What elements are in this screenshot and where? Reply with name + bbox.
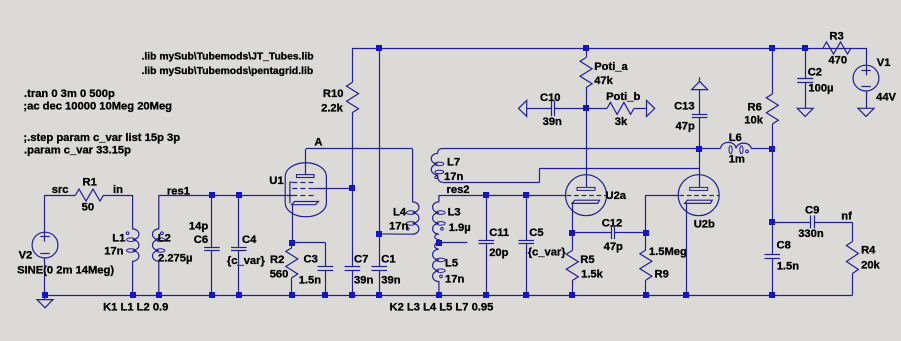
resistor R4 <box>852 222 854 241</box>
svg-text:R10: R10 <box>323 88 344 100</box>
wire cathode to C3 <box>292 242 326 244</box>
ground below V1 <box>858 108 874 116</box>
svg-text:C8: C8 <box>777 240 791 252</box>
svg-text:L5: L5 <box>445 258 458 270</box>
svg-text:47p: 47p <box>676 120 695 132</box>
junction L2-gnd <box>156 292 162 298</box>
svg-text:C2: C2 <box>808 67 822 79</box>
junction poti wiper <box>583 105 589 111</box>
U2b plate lead <box>699 149 701 188</box>
wire nfb drop <box>772 149 774 223</box>
junction C4-res1 <box>236 192 242 198</box>
junction R9-gnd <box>643 292 649 298</box>
inductor L6 <box>721 142 752 148</box>
wire ground rail bottom <box>45 295 852 297</box>
resistor Poti_a <box>586 48 588 58</box>
capacitor C7 <box>352 188 354 266</box>
capacitor C4 <box>238 195 240 247</box>
capacitor C11 <box>486 195 488 240</box>
svg-text:2.275µ: 2.275µ <box>158 253 192 265</box>
svg-text:1m: 1m <box>729 154 745 166</box>
svg-text:C7: C7 <box>354 254 368 266</box>
svg-text:R1: R1 <box>83 177 97 189</box>
tube U2b envelope <box>678 175 719 216</box>
svg-text:39n: 39n <box>543 116 562 128</box>
U1 grid g1 dashes <box>292 195 297 197</box>
junction C7-gnd <box>349 292 355 298</box>
capacitor C5 <box>526 195 528 240</box>
svg-text:470: 470 <box>828 55 847 67</box>
resistor R1 <box>76 189 104 201</box>
svg-text:20k: 20k <box>861 259 880 271</box>
junction C8-C9 <box>769 219 775 225</box>
U2a cathode lead <box>572 203 574 232</box>
resistor R9 <box>640 250 652 280</box>
svg-text:17n: 17n <box>444 171 463 183</box>
wire src <box>45 195 76 197</box>
svg-text:C12: C12 <box>602 218 623 230</box>
svg-text:1.5k: 1.5k <box>581 269 604 281</box>
junction g2 screen <box>349 185 355 191</box>
svg-text:A: A <box>314 137 322 149</box>
wire res1 <box>159 195 292 197</box>
svg-text:Poti_a: Poti_a <box>594 61 628 73</box>
svg-text:C6: C6 <box>194 234 208 246</box>
svg-text:C1: C1 <box>381 254 395 266</box>
capacitor C8 <box>772 222 774 255</box>
U1 g2 lead <box>314 188 353 190</box>
wire stub L3-L5 node <box>439 242 467 244</box>
junction U2b plate <box>696 146 702 152</box>
U1 cathode lead <box>292 205 294 243</box>
junction C6-gnd <box>209 292 215 298</box>
phase dot L1 <box>126 232 129 235</box>
U2b cathode lead <box>686 203 688 295</box>
junction supply top <box>376 45 382 51</box>
capacitor C10 <box>527 108 552 110</box>
svg-text:1.9µ: 1.9µ <box>449 222 471 234</box>
svg-text:U2b: U2b <box>694 219 715 231</box>
junction L1-gnd <box>130 292 136 298</box>
svg-text:560: 560 <box>270 268 289 280</box>
ground below C2 <box>797 108 813 116</box>
junction R5-gnd <box>569 292 575 298</box>
wire U2b grid <box>645 195 647 233</box>
wire in <box>104 195 133 197</box>
phase dot L5 <box>440 275 443 278</box>
phase dot L3 <box>441 227 444 230</box>
inductor L2 <box>153 195 159 295</box>
junction U2b grid node <box>643 230 649 236</box>
phase dot L2 <box>161 232 164 235</box>
capacitor C6 <box>211 195 213 247</box>
U1 grid g3 dashes <box>292 182 297 184</box>
svg-text:Poti_b: Poti_b <box>606 91 640 103</box>
junction C11-gnd <box>483 292 489 298</box>
svg-text:R6: R6 <box>748 102 762 114</box>
svg-text:K1 L1 L2 0.9: K1 L1 L2 0.9 <box>103 302 168 314</box>
svg-text:L1: L1 <box>112 233 125 245</box>
inductor L4 <box>379 149 419 234</box>
wire L7top to L6 <box>443 148 721 150</box>
junction R6 top <box>769 45 775 51</box>
svg-text:C11: C11 <box>489 227 509 239</box>
svg-text:.lib mySub\Tubemods\pentagrid.: .lib mySub\Tubemods\pentagrid.lib <box>142 66 314 77</box>
wire res2 <box>439 195 566 197</box>
svg-text:R9: R9 <box>655 269 669 281</box>
resistor R5 <box>572 233 574 251</box>
svg-text:L3: L3 <box>448 207 461 219</box>
U1 cathode <box>292 202 319 205</box>
svg-text:.lib mySub\Tubemods\JT_Tubes.l: .lib mySub\Tubemods\JT_Tubes.lib <box>142 52 314 63</box>
svg-text:1.5Meg: 1.5Meg <box>649 246 687 258</box>
svg-text:V2: V2 <box>19 250 33 262</box>
svg-text:{c_var}: {c_var} <box>528 247 567 259</box>
svg-text:47p: 47p <box>604 241 623 253</box>
wire L6 to R6 <box>751 148 772 150</box>
wire supply drop <box>379 48 381 234</box>
svg-text:U1: U1 <box>269 175 283 187</box>
capacitor C9 <box>772 222 811 224</box>
svg-text:C10: C10 <box>540 92 561 104</box>
resistor R6 <box>772 48 774 94</box>
junction U2a cathode <box>569 230 575 236</box>
resistor R2 <box>291 243 293 248</box>
resistor R3 <box>823 42 851 54</box>
svg-text:res2: res2 <box>447 184 470 196</box>
junction C6-res1 <box>209 192 215 198</box>
svg-text:1.5n: 1.5n <box>777 261 800 273</box>
svg-text:39n: 39n <box>354 275 373 287</box>
U2a plate bar <box>577 187 595 190</box>
svg-text:C4: C4 <box>242 234 257 246</box>
inductor L1 <box>133 195 139 295</box>
svg-text:R2: R2 <box>270 254 284 266</box>
junction C1-gnd <box>376 292 382 298</box>
svg-text:330n: 330n <box>798 228 824 240</box>
resistor Poti_b <box>586 108 607 110</box>
svg-text:14p: 14p <box>189 221 208 233</box>
junction C2 top <box>802 45 808 51</box>
voltage source V1 <box>853 65 879 91</box>
phase dot L4 <box>406 227 409 230</box>
junction C11-res2 <box>483 192 489 198</box>
svg-text:3k: 3k <box>615 116 628 128</box>
tube U1 envelope <box>285 163 326 217</box>
inductor L3 <box>433 195 439 242</box>
tube U2a envelope <box>566 175 607 216</box>
junction R2-gnd <box>289 292 295 298</box>
junction L5-gnd <box>436 292 442 298</box>
capacitor C12 <box>572 232 611 234</box>
wire L7 bottom feedback <box>443 182 540 184</box>
svg-text:44V: 44V <box>876 92 896 104</box>
junction C3-gnd <box>322 292 328 298</box>
svg-text:V1: V1 <box>877 57 891 69</box>
svg-text:10k: 10k <box>744 115 763 127</box>
U2a cathode <box>572 200 600 203</box>
junction C8-gnd <box>769 292 775 298</box>
svg-text:39n: 39n <box>381 275 400 287</box>
svg-text:C5: C5 <box>529 227 543 239</box>
svg-text:U2a: U2a <box>606 190 627 202</box>
capacitor C13 <box>699 90 701 115</box>
junction C4-gnd <box>236 292 242 298</box>
capacitor C1 <box>379 234 381 267</box>
junction L4-C1 <box>376 231 382 237</box>
svg-text:17n: 17n <box>445 274 464 286</box>
junction U2b cathode gnd <box>683 292 689 298</box>
U1 plate bar <box>297 175 315 178</box>
svg-text:C3: C3 <box>304 254 318 266</box>
inductor L7 <box>431 149 443 183</box>
ground above C13 <box>692 81 708 89</box>
junction L3-L5 <box>436 240 442 246</box>
svg-text:17n: 17n <box>104 246 123 258</box>
capacitor C3 <box>325 243 327 267</box>
resistor R10 <box>352 48 354 82</box>
ground left of C10 <box>519 100 527 116</box>
U1 grid g2 dashes <box>292 188 297 190</box>
ground at V2 <box>44 295 46 299</box>
svg-text:;.step param c_var list 15p 3p: ;.step param c_var list 15p 3p <box>23 132 180 144</box>
svg-text:47k: 47k <box>594 75 613 87</box>
wire node A <box>306 148 413 150</box>
inductor L5 <box>433 243 439 296</box>
svg-text:{c_var}: {c_var} <box>227 255 266 267</box>
svg-text:17n: 17n <box>389 221 408 233</box>
junction V2-gnd <box>42 292 48 298</box>
svg-text:L6: L6 <box>729 132 742 144</box>
svg-text:in: in <box>113 184 123 196</box>
wire R3 to V1 <box>866 48 868 65</box>
junction C5-res2 <box>523 192 529 198</box>
svg-text:;ac dec 10000 10Meg 20Meg: ;ac dec 10000 10Meg 20Meg <box>23 101 172 113</box>
U2b cathode <box>685 200 713 203</box>
svg-text:nf: nf <box>841 211 852 223</box>
wire poti to U2a plate <box>586 108 588 187</box>
svg-text:L7: L7 <box>447 157 460 169</box>
U1 g3-cathode tie <box>290 182 292 203</box>
svg-text:1.5n: 1.5n <box>299 275 322 287</box>
svg-text:C9: C9 <box>805 205 819 217</box>
junction L6-R6 <box>769 146 775 152</box>
ground right of Poti_b <box>647 100 655 116</box>
capacitor C2 <box>805 48 807 79</box>
svg-text:K2 L3 L4 L5 L7 0.95: K2 L3 L4 L5 L7 0.95 <box>390 302 494 314</box>
phase dot L7 <box>435 176 438 179</box>
svg-text:2.2k: 2.2k <box>321 103 344 115</box>
junction C5-gnd <box>523 292 529 298</box>
U1 plate lead <box>305 149 307 175</box>
svg-text:SINE(0 2m 14Meg): SINE(0 2m 14Meg) <box>17 265 114 277</box>
svg-text:100µ: 100µ <box>808 83 833 95</box>
svg-text:20p: 20p <box>489 247 508 259</box>
U2b grid dashes <box>679 195 684 197</box>
svg-text:50: 50 <box>82 202 94 214</box>
svg-text:R3: R3 <box>829 30 843 42</box>
svg-text:R4: R4 <box>861 245 876 257</box>
svg-text:L2: L2 <box>158 233 171 245</box>
wire supply rail top <box>353 48 867 50</box>
svg-text:L4: L4 <box>393 207 407 219</box>
svg-text:.param c_var 33.15p: .param c_var 33.15p <box>24 145 131 157</box>
U2a grid dashes <box>567 195 572 197</box>
junction cathode U1 <box>289 240 295 246</box>
voltage source V2 <box>44 195 46 232</box>
U2b plate bar <box>690 187 708 190</box>
svg-text:.tran 0 3m 0 500p: .tran 0 3m 0 500p <box>24 88 115 100</box>
svg-text:src: src <box>52 184 69 196</box>
phase dot L6 <box>746 150 749 153</box>
svg-text:C13: C13 <box>674 101 695 113</box>
junction Poti_a top <box>583 45 589 51</box>
svg-text:R5: R5 <box>580 254 594 266</box>
